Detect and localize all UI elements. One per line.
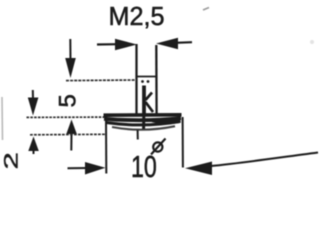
stud left edge / extension line [135, 44, 137, 115]
scan speck right [310, 40, 314, 44]
disc right edge / extension line [182, 117, 184, 168]
disc top reference dotted line [27, 116, 106, 118]
2 dimension lower arrowhead (up) [28, 137, 39, 152]
svg-text:5: 5 [55, 94, 82, 107]
disc lens body upper arc [104, 118, 181, 120]
M2,5 left arrowhead [115, 39, 137, 50]
2 dimension upper arrowhead (down) [28, 98, 39, 116]
diameter symbol slash [151, 139, 166, 155]
disc bottom faint arc [112, 126, 175, 130]
5 dimension lower arrowhead (up) [66, 120, 77, 135]
disc bottom reference line [30, 133, 106, 136]
disc top face line [104, 113, 182, 117]
M2,5 right dimension line [176, 41, 192, 44]
svg-text:M2,5: M2,5 [109, 2, 165, 30]
M2,5 left dimension line [97, 43, 118, 45]
M2,5 right arrowhead [156, 38, 178, 49]
10 dimension left line [68, 167, 89, 169]
2 dimension upper line [32, 90, 34, 99]
5 reference dotted line (stud top) [66, 79, 137, 82]
scan speck top right [203, 8, 209, 11]
svg-text:2: 2 [1, 152, 22, 169]
thread tail through disc [142, 116, 145, 129]
thread mark (K shape) [142, 86, 146, 117]
thread start line [137, 76, 158, 78]
5 dimension upper line [69, 39, 71, 60]
5 dimension upper arrowhead (down) [65, 58, 76, 78]
disc center tick [137, 130, 139, 140]
5 dimension lower line [70, 133, 72, 151]
10 dimension leader line [211, 153, 318, 167]
disc lens body lower arc [106, 122, 180, 125]
scan smudge left edge [1, 97, 4, 140]
disc lens right wedge [152, 121, 181, 123]
stud right edge / extension line [155, 45, 158, 115]
thread dots [141, 80, 144, 83]
10 dimension left arrowhead [85, 162, 106, 175]
disc left edge / extension line [105, 117, 107, 174]
10 dimension right arrowhead [185, 162, 212, 176]
diameter symbol circle [153, 142, 162, 151]
2 dimension lower line [33, 150, 35, 154]
